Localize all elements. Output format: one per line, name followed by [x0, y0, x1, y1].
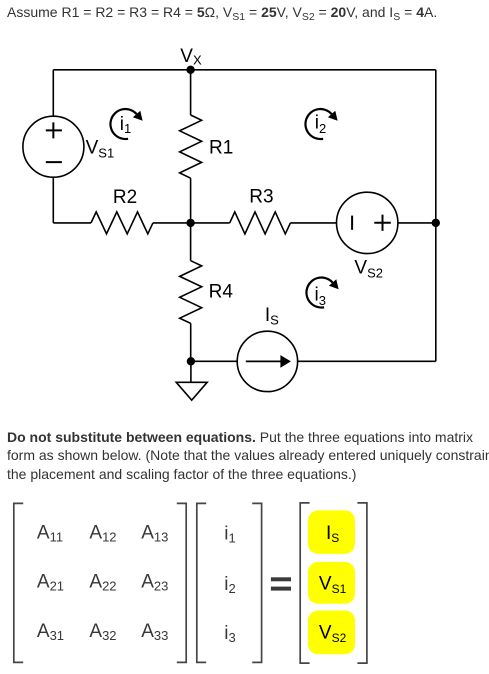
ground symbol triangle	[176, 382, 207, 400]
svg-text:i2: i2	[315, 113, 326, 137]
wire VS2 to right rail	[398, 222, 436, 224]
RHS vector right bracket	[357, 503, 367, 663]
mesh arrow i3 arc	[306, 278, 332, 308]
wire R1 bottom to middle node	[190, 178, 192, 223]
wire right rail	[435, 70, 437, 362]
wire middle rail left segment	[53, 222, 91, 224]
svg-text:A32: A32	[89, 621, 116, 643]
mesh arrow i1 head	[133, 111, 143, 121]
IS arrow head	[280, 355, 291, 368]
svg-text:VS2: VS2	[354, 258, 383, 281]
svg-text:R1: R1	[209, 138, 233, 159]
svg-text:A33: A33	[141, 621, 168, 643]
resistor R4 zigzag	[180, 261, 202, 324]
node dot bottom junction	[187, 357, 195, 365]
mesh arrow i2 arc	[305, 109, 331, 139]
mesh arrow i1 arc	[110, 109, 136, 139]
highlight box VS2	[308, 611, 355, 655]
wire bottom rail right (IS to right rail)	[298, 360, 436, 362]
svg-text:IS: IS	[265, 305, 279, 328]
svg-text:A11: A11	[37, 523, 63, 545]
VS1 minus sign	[46, 161, 62, 163]
resistor R1 zigzag	[180, 115, 202, 178]
node dot Vx	[186, 66, 194, 74]
voltage source VS2 circle	[337, 192, 398, 253]
resistor R3 zigzag	[230, 212, 291, 234]
wire left rail upper (to VS1 top)	[52, 70, 54, 116]
svg-text:i1: i1	[224, 524, 235, 546]
svg-text:i1: i1	[120, 114, 131, 136]
highlight box VS1	[308, 562, 355, 604]
matrix A right bracket	[177, 503, 186, 662]
svg-text:A31: A31	[37, 621, 64, 643]
svg-text:A21: A21	[37, 572, 64, 594]
svg-text:A23: A23	[141, 572, 168, 594]
svg-text:i3: i3	[315, 285, 326, 309]
node dot middle junction	[186, 219, 194, 227]
wire middle rail center segment	[153, 222, 230, 224]
voltage source VS1 circle	[23, 116, 84, 177]
wire middle node down to R4	[190, 223, 192, 261]
svg-text:VX: VX	[180, 46, 202, 68]
node dot right junction	[432, 219, 440, 227]
mesh arrow i2 head	[328, 111, 338, 121]
highlight box IS	[308, 510, 355, 554]
svg-text:R3: R3	[249, 187, 273, 208]
RHS vector left bracket	[300, 503, 309, 663]
svg-text:VS1: VS1	[86, 137, 115, 160]
VS1 plus sign	[46, 122, 62, 138]
svg-text:R2: R2	[113, 187, 137, 208]
wire bottom rail left (node to IS)	[191, 360, 238, 362]
svg-text:A22: A22	[89, 572, 116, 594]
wire from Vx node down to R1	[190, 70, 192, 115]
paragraph 2: instructions text	[7, 428, 489, 484]
svg-text:A13: A13	[141, 523, 168, 545]
svg-text:A12: A12	[89, 523, 116, 545]
wire R4 bottom to bottom node	[190, 323, 192, 361]
resistor R2 zigzag	[91, 212, 153, 234]
matrix A left bracket	[14, 503, 23, 662]
VS2 minus sign (vertical bar)	[351, 216, 353, 230]
wire top rail	[53, 69, 436, 71]
svg-text:i3: i3	[224, 623, 235, 645]
current source IS circle	[237, 331, 297, 391]
svg-text:i2: i2	[224, 574, 235, 596]
IS arrow shaft	[246, 360, 281, 362]
equals sign	[271, 577, 291, 581]
wire ground stem	[190, 361, 192, 382]
VS2 plus sign	[374, 215, 391, 231]
wire left rail lower (VS1 bottom to middle rail)	[52, 177, 54, 223]
vector i right bracket	[252, 503, 261, 662]
mesh arrow i3 head	[329, 279, 339, 289]
vector i left bracket	[197, 503, 206, 662]
svg-text:R4: R4	[209, 282, 234, 303]
paragraph 1: assumptions text	[7, 5, 437, 19]
wire R3 to VS2	[290, 222, 336, 224]
